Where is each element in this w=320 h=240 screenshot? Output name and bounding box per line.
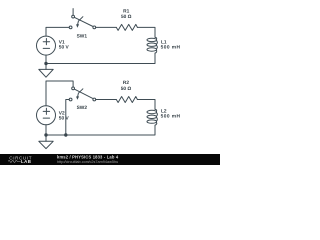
wire xyxy=(137,100,155,110)
wire xyxy=(46,81,73,106)
node junction xyxy=(44,62,47,65)
switch SW1 xyxy=(69,9,96,29)
wire xyxy=(46,125,155,135)
voltage source V2 xyxy=(37,106,56,125)
svg-text:LAB: LAB xyxy=(21,159,31,164)
svg-text:50 Ω: 50 Ω xyxy=(121,86,132,92)
svg-text:SW1: SW1 xyxy=(77,34,88,40)
svg-text:R1: R1 xyxy=(123,8,129,14)
ground xyxy=(39,64,53,78)
inductor L2 xyxy=(147,109,157,125)
wire xyxy=(66,100,69,136)
svg-text:R2: R2 xyxy=(123,80,129,86)
inductor L1 xyxy=(147,37,157,53)
wire xyxy=(96,26,117,28)
resistor R1 xyxy=(116,24,137,30)
svg-text:SW2: SW2 xyxy=(77,105,88,111)
node junction xyxy=(44,133,47,136)
svg-text:500 mH: 500 mH xyxy=(161,114,181,120)
svg-text:50 V: 50 V xyxy=(59,116,70,122)
svg-text:50 V: 50 V xyxy=(59,45,70,51)
CircuitLab logo xyxy=(8,155,32,164)
svg-text:50 Ω: 50 Ω xyxy=(121,14,132,20)
wire xyxy=(137,27,155,37)
footer bar xyxy=(0,154,220,165)
resistor R2 xyxy=(116,97,137,103)
node junction xyxy=(64,133,67,136)
voltage source V1 xyxy=(37,36,56,55)
wire xyxy=(45,125,47,135)
svg-text:http:∕∕circuitlab.com∕c2s7am94: http:∕∕circuitlab.com∕c2s7am94aw5hu xyxy=(57,160,118,164)
wire xyxy=(46,53,155,63)
wire xyxy=(45,55,47,63)
svg-text:V2: V2 xyxy=(59,111,65,117)
wire xyxy=(96,99,117,101)
ground xyxy=(39,135,53,149)
switch SW2 xyxy=(69,87,96,101)
wire xyxy=(46,27,69,36)
svg-text:500 mH: 500 mH xyxy=(161,44,181,50)
